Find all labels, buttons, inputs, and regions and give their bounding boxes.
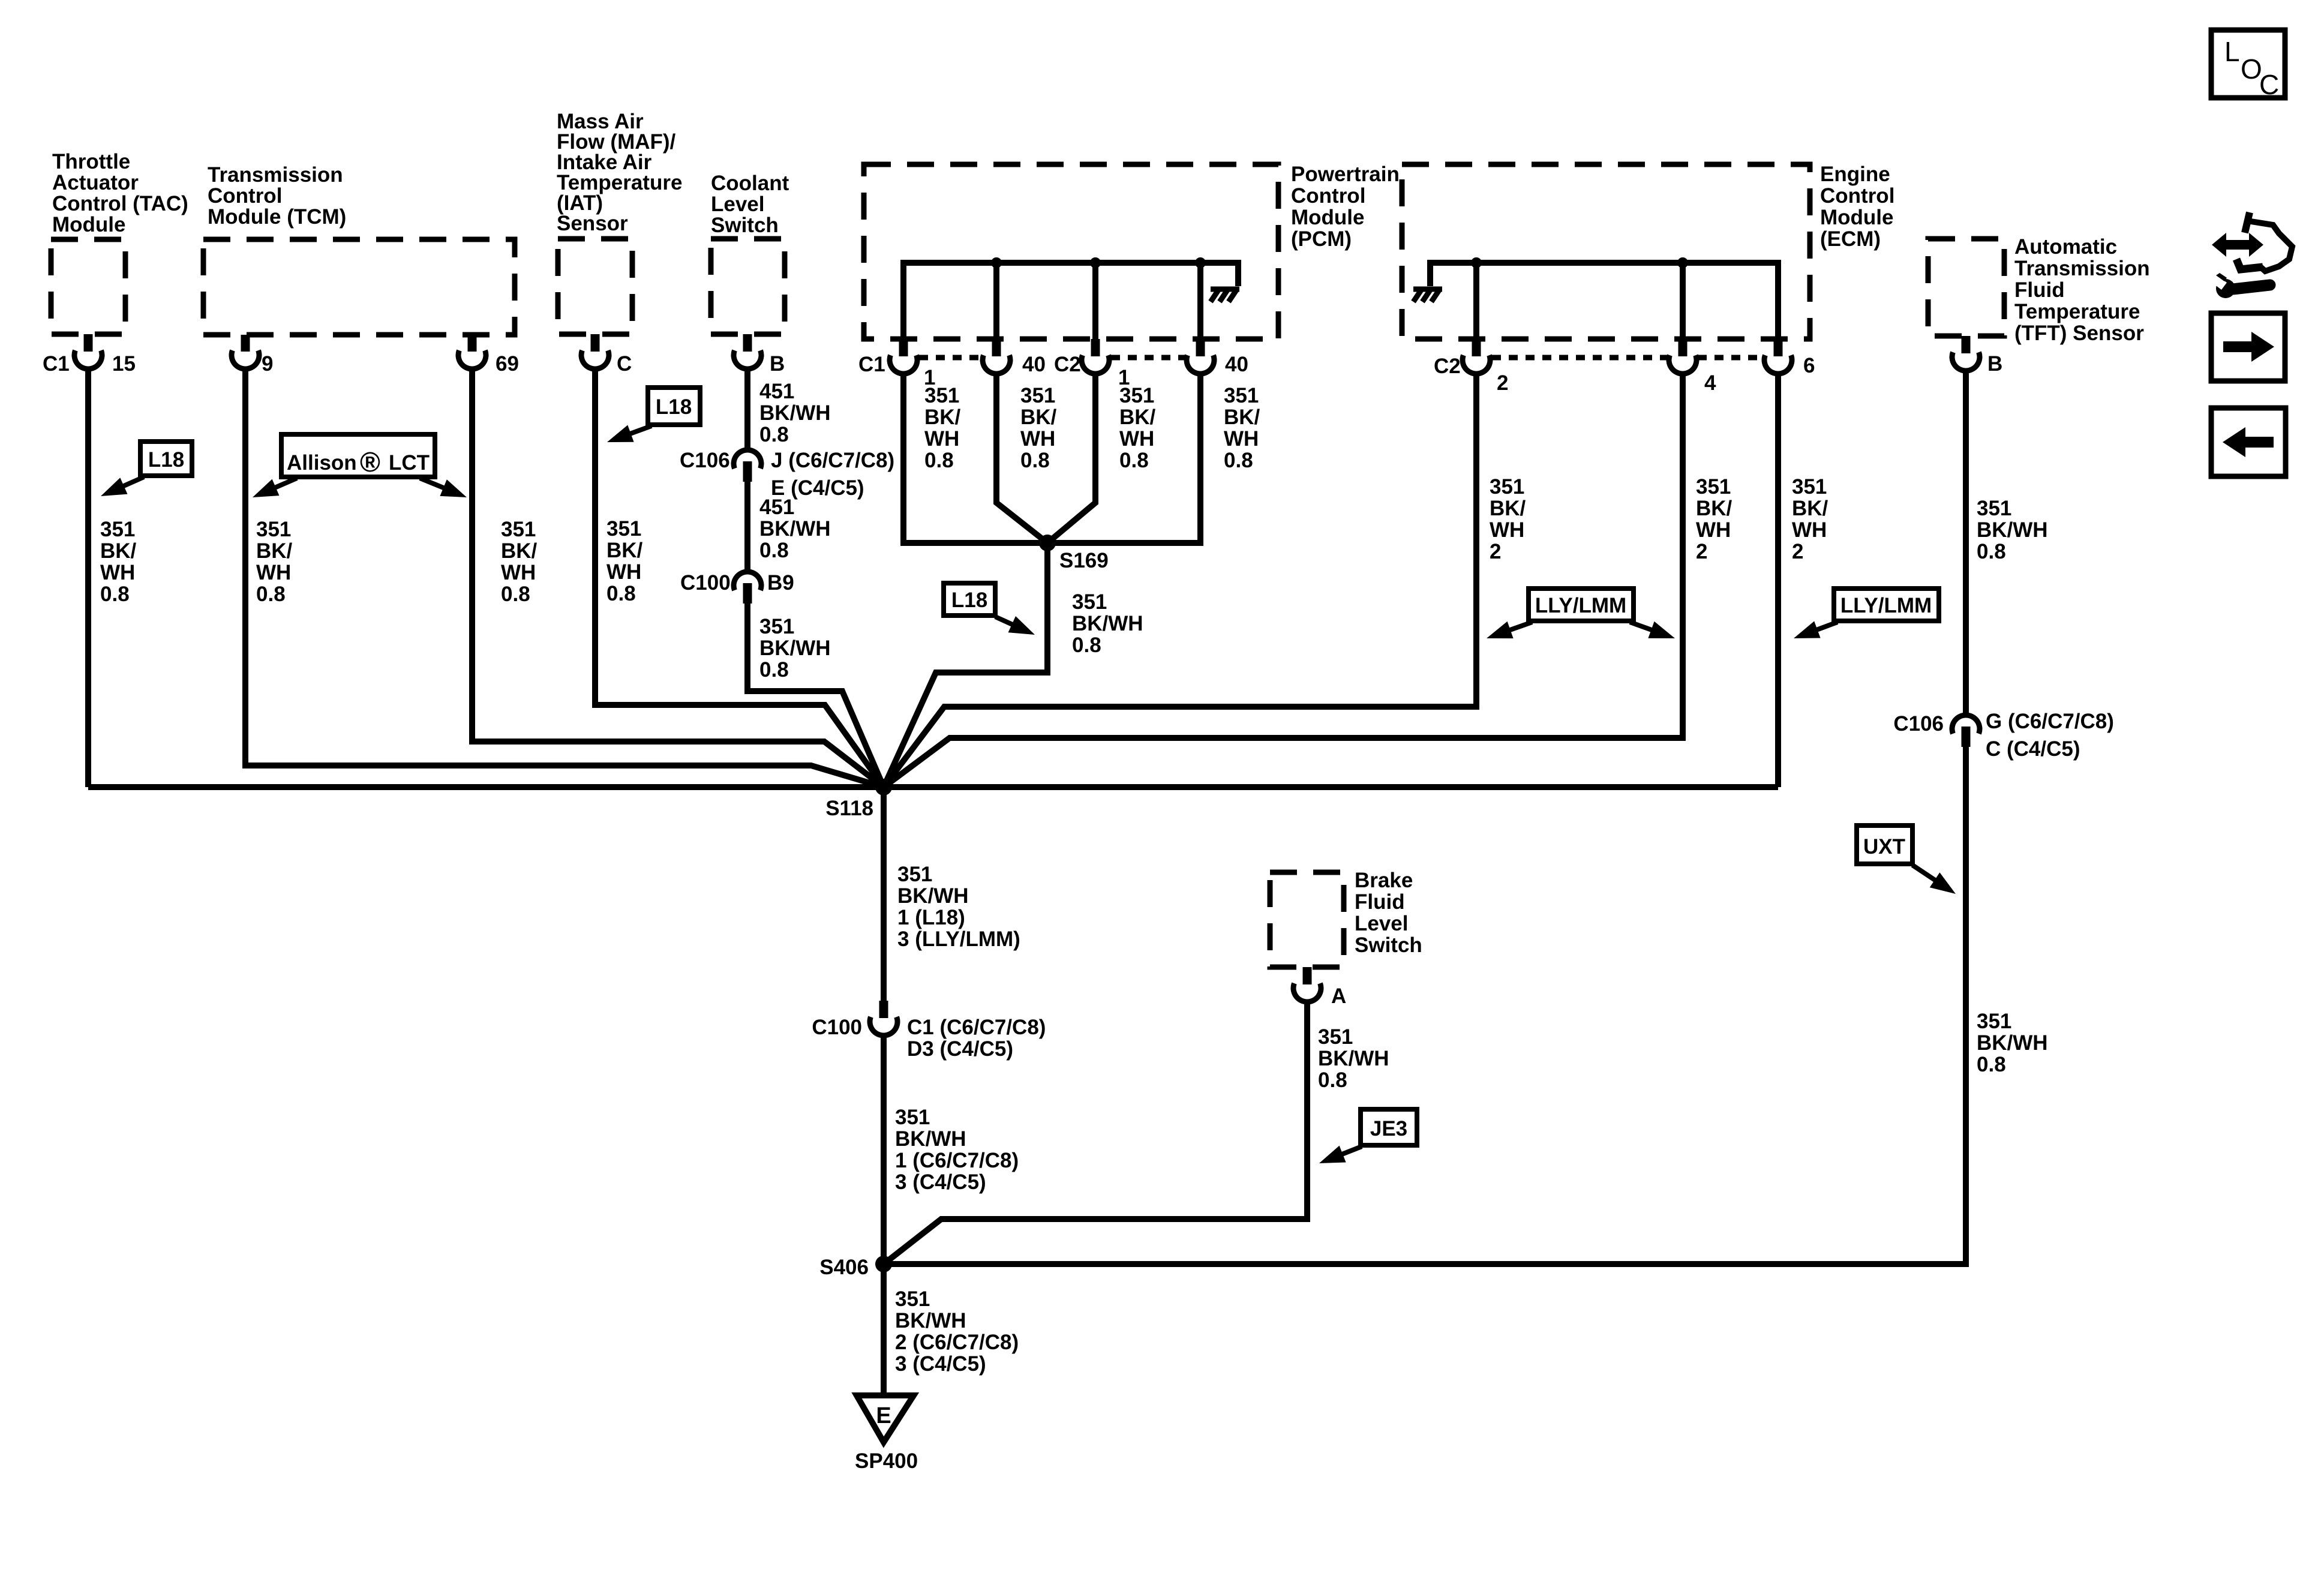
svg-text:Coolant: Coolant bbox=[711, 172, 789, 195]
wire ECM C2-2 to S118 bbox=[884, 374, 1476, 787]
wire label 351 BK/WH 0.8 (TCM 9) bbox=[256, 518, 293, 606]
svg-text:Brake: Brake bbox=[1355, 869, 1413, 892]
component box: Coolant Level Switch bbox=[711, 172, 789, 334]
svg-text:69: 69 bbox=[496, 352, 519, 376]
svg-text:3 (C4/C5): 3 (C4/C5) bbox=[895, 1170, 986, 1194]
callout UXT bbox=[1857, 825, 1956, 894]
splice S169 bbox=[1039, 535, 1109, 572]
svg-text:0.8: 0.8 bbox=[1224, 449, 1253, 472]
svg-text:0.8: 0.8 bbox=[1072, 634, 1101, 657]
pin B of coolant level switch bbox=[734, 334, 785, 376]
svg-text:Control (TAC): Control (TAC) bbox=[52, 192, 188, 215]
svg-text:BK/WH: BK/WH bbox=[759, 637, 831, 660]
svg-text:BK/: BK/ bbox=[1020, 406, 1057, 429]
svg-text:L18: L18 bbox=[148, 448, 184, 472]
svg-text:0.8: 0.8 bbox=[1318, 1068, 1347, 1092]
svg-text:C106: C106 bbox=[1893, 712, 1944, 736]
svg-text:Module: Module bbox=[1820, 206, 1893, 229]
ECM internal ground bus wire bbox=[1430, 263, 1778, 339]
svg-text:SP400: SP400 bbox=[855, 1449, 918, 1473]
component box: Brake Fluid Level Switch bbox=[1270, 869, 1422, 967]
component box: Transmission Control Module (TCM) bbox=[203, 163, 515, 335]
svg-text:WH: WH bbox=[100, 561, 135, 584]
svg-text:A: A bbox=[1331, 984, 1346, 1008]
svg-text:C1: C1 bbox=[858, 353, 885, 376]
svg-text:B9: B9 bbox=[767, 571, 794, 595]
svg-text:WH: WH bbox=[1224, 427, 1259, 451]
svg-text:WH: WH bbox=[501, 561, 536, 584]
svg-text:Powertrain: Powertrain bbox=[1291, 163, 1400, 186]
wire TCM pin 69 to S118 bbox=[472, 369, 884, 787]
svg-text:BK/: BK/ bbox=[606, 539, 643, 562]
svg-text:Module: Module bbox=[52, 213, 125, 236]
svg-text:BK/: BK/ bbox=[100, 539, 137, 563]
wire label 351 BK/WH 1 (C6/C7/C8) 3 (C4/C5) bbox=[895, 1106, 1019, 1194]
svg-text:351: 351 bbox=[1696, 475, 1731, 499]
wire label 351 BK/WH 0.8 (S169) bbox=[1072, 590, 1143, 657]
pin 69 of TCM bbox=[458, 335, 519, 376]
svg-text:C: C bbox=[2259, 69, 2279, 100]
pin 40 of PCM C1 bbox=[983, 339, 1046, 376]
callout L18 (S169) bbox=[944, 583, 1035, 635]
svg-text:S169: S169 bbox=[1059, 549, 1109, 572]
svg-text:BK/WH: BK/WH bbox=[895, 1127, 966, 1151]
chassis ground inside ECM bbox=[1413, 289, 1442, 302]
svg-text:LLY/LMM: LLY/LMM bbox=[1840, 594, 1932, 617]
svg-text:BK/: BK/ bbox=[256, 539, 293, 563]
svg-text:9: 9 bbox=[262, 352, 273, 376]
svg-text:0.8: 0.8 bbox=[924, 449, 954, 472]
pin 9 of TCM bbox=[232, 335, 273, 376]
svg-text:WH: WH bbox=[924, 427, 959, 451]
svg-text:BK/WH: BK/WH bbox=[1072, 612, 1143, 635]
svg-text:2: 2 bbox=[1490, 540, 1501, 563]
svg-text:351: 351 bbox=[1020, 384, 1055, 407]
svg-text:BK/: BK/ bbox=[501, 539, 538, 563]
svg-text:WH: WH bbox=[1490, 518, 1524, 542]
inline connector C106 (coolant) bbox=[680, 449, 894, 500]
svg-text:C (C4/C5): C (C4/C5) bbox=[1986, 737, 2080, 761]
wire coolant switch B to C106 bbox=[744, 369, 750, 450]
svg-text:B: B bbox=[1987, 352, 2002, 376]
svg-text:WH: WH bbox=[1119, 427, 1154, 451]
svg-text:351: 351 bbox=[501, 518, 536, 541]
wire PCM C2-1 to S169 bbox=[1047, 374, 1095, 543]
svg-text:BK/WH: BK/WH bbox=[759, 517, 831, 541]
callout L18 (MAF) bbox=[607, 388, 700, 442]
svg-text:2 (C6/C7/C8): 2 (C6/C7/C8) bbox=[895, 1331, 1019, 1354]
svg-text:351: 351 bbox=[1119, 384, 1154, 407]
svg-text:E: E bbox=[876, 1403, 891, 1428]
wire brake switch A to S406 bbox=[884, 1002, 1307, 1264]
dotted connector link PCM C1 bbox=[919, 355, 981, 361]
svg-text:Engine: Engine bbox=[1820, 163, 1890, 186]
svg-text:451: 451 bbox=[759, 496, 794, 519]
svg-text:Temperature: Temperature bbox=[2014, 300, 2140, 323]
svg-text:(TFT) Sensor: (TFT) Sensor bbox=[2014, 322, 2144, 345]
svg-text:Switch: Switch bbox=[711, 214, 779, 237]
callout JE3 bbox=[1319, 1109, 1417, 1163]
wire C106 to C100 bbox=[744, 482, 750, 572]
wire label 351 BK/WH 0.8 (TAC) bbox=[100, 518, 137, 606]
svg-text:Control: Control bbox=[1820, 184, 1894, 208]
svg-text:351: 351 bbox=[1792, 475, 1827, 499]
wire label 351 BK/WH 0.8 (PCM C1-1) bbox=[924, 384, 961, 472]
svg-text:L18: L18 bbox=[951, 589, 987, 612]
svg-text:(PCM): (PCM) bbox=[1291, 227, 1352, 251]
svg-text:0.8: 0.8 bbox=[256, 583, 286, 606]
wire label 351 BK/WH 1 (L18) 3 (LLY/LMM) bbox=[897, 863, 1020, 951]
wire label 351 BK/WH 0.8 (brake) bbox=[1318, 1025, 1389, 1092]
svg-text:0.8: 0.8 bbox=[759, 539, 789, 562]
wire TFT B to C106 G bbox=[1963, 371, 1969, 715]
svg-text:40: 40 bbox=[1022, 353, 1046, 376]
pin 4 of ECM bbox=[1669, 339, 1716, 395]
wire TCM pin 9 to S118 bbox=[245, 369, 884, 787]
svg-text:D3 (C4/C5): D3 (C4/C5) bbox=[907, 1037, 1013, 1061]
splice S406 bbox=[819, 1256, 892, 1279]
svg-text:BK/WH: BK/WH bbox=[1977, 1031, 2048, 1055]
wire C100 B9 to S118 bbox=[747, 604, 884, 787]
svg-text:BK/WH: BK/WH bbox=[897, 884, 969, 908]
wire ECM 6 to S118 bus bbox=[1775, 374, 1781, 787]
callout LLY/LMM (left) bbox=[1487, 589, 1675, 638]
wire label 351 BK/WH 0.8 (PCM 40b) bbox=[1224, 384, 1260, 472]
wire C106 G down to S406 bus bbox=[884, 747, 1966, 1264]
svg-text:15: 15 bbox=[112, 352, 136, 376]
svg-text:WH: WH bbox=[256, 561, 291, 584]
component box: Engine Control Module (ECM) bbox=[1402, 163, 1894, 339]
svg-text:WH: WH bbox=[1696, 518, 1731, 542]
wire PCM C1-1 to S169 bbox=[903, 374, 1047, 543]
svg-text:LCT: LCT bbox=[389, 451, 430, 475]
svg-text:®: ® bbox=[360, 446, 380, 478]
PCM internal ground bus wire bbox=[903, 263, 1238, 339]
svg-text:WH: WH bbox=[1792, 518, 1827, 542]
svg-text:C1 (C6/C7/C8): C1 (C6/C7/C8) bbox=[907, 1016, 1046, 1039]
pin C1 15 of TAC module bbox=[43, 334, 136, 376]
svg-text:Automatic: Automatic bbox=[2014, 235, 2117, 259]
svg-text:S118: S118 bbox=[825, 797, 873, 820]
svg-text:BK/WH: BK/WH bbox=[895, 1309, 966, 1332]
svg-text:2: 2 bbox=[1497, 371, 1508, 395]
legend icon vehicle with arrow and wrench bbox=[2211, 212, 2292, 298]
component box: Powertrain Control Module (PCM) bbox=[864, 163, 1400, 339]
svg-text:BK/WH: BK/WH bbox=[1318, 1047, 1389, 1070]
svg-text:1 (L18): 1 (L18) bbox=[897, 906, 965, 929]
svg-text:C2: C2 bbox=[1434, 355, 1461, 378]
svg-text:Throttle: Throttle bbox=[52, 150, 130, 173]
junction dot PCM bus 3 bbox=[1195, 257, 1206, 268]
wire label 351 BK/WH 0.8 (MAF) bbox=[606, 517, 643, 605]
pin 6 of ECM bbox=[1764, 339, 1815, 377]
svg-text:C: C bbox=[617, 352, 632, 376]
svg-text:BK/: BK/ bbox=[1224, 406, 1260, 429]
svg-text:351: 351 bbox=[1977, 497, 2011, 520]
svg-text:351: 351 bbox=[1318, 1025, 1353, 1049]
junction dot PCM bus 2 bbox=[1090, 257, 1101, 268]
svg-text:351: 351 bbox=[100, 518, 135, 541]
svg-text:2: 2 bbox=[1792, 540, 1803, 563]
wire label 351 BK/WH 0.8 (TCM 69) bbox=[501, 518, 538, 606]
svg-text:S406: S406 bbox=[819, 1256, 869, 1279]
callout L18 (left) bbox=[101, 442, 192, 496]
inline connector C100 B9 bbox=[680, 571, 794, 604]
svg-text:351: 351 bbox=[895, 1287, 930, 1311]
svg-text:351: 351 bbox=[1224, 384, 1259, 407]
wire label 351 BK/WH 0.8 (PCM 40a) bbox=[1020, 384, 1057, 472]
wire label 351 BK/WH 0.8 (PCM C2-1) bbox=[1119, 384, 1156, 472]
wire label 351 BK/WH 0.8 (coolant lower) bbox=[759, 615, 831, 682]
svg-text:C100: C100 bbox=[680, 571, 731, 595]
wire S169 to S118 bbox=[884, 543, 1047, 787]
svg-text:WH: WH bbox=[606, 560, 641, 584]
callout Allison LCT bbox=[253, 434, 467, 497]
wire PCM 40a to S169 bbox=[996, 374, 1047, 543]
svg-text:BK/: BK/ bbox=[1696, 497, 1733, 520]
svg-text:G (C6/C7/C8): G (C6/C7/C8) bbox=[1986, 710, 2114, 733]
svg-text:351: 351 bbox=[256, 518, 291, 541]
svg-text:Switch: Switch bbox=[1355, 933, 1422, 957]
wire label 351 BK/WH 0.8 (TFT lower) bbox=[1977, 1010, 2048, 1076]
svg-text:BK/: BK/ bbox=[924, 406, 961, 429]
svg-text:Fluid: Fluid bbox=[1355, 890, 1405, 914]
svg-text:351: 351 bbox=[1072, 590, 1107, 614]
svg-text:0.8: 0.8 bbox=[1119, 449, 1149, 472]
svg-text:BK/WH: BK/WH bbox=[759, 401, 831, 425]
legend box arrow left bbox=[2211, 408, 2286, 476]
svg-text:JE3: JE3 bbox=[1370, 1117, 1407, 1140]
svg-text:0.8: 0.8 bbox=[759, 423, 789, 446]
svg-text:0.8: 0.8 bbox=[501, 583, 530, 606]
wire S406 to ground SP400 bbox=[881, 1264, 887, 1397]
svg-text:B: B bbox=[770, 352, 785, 376]
svg-text:4: 4 bbox=[1704, 371, 1716, 395]
svg-text:Fluid: Fluid bbox=[2014, 278, 2065, 302]
svg-text:Level: Level bbox=[1355, 912, 1409, 935]
svg-text:C2: C2 bbox=[1054, 353, 1081, 376]
wire S118 horizontal bus bbox=[88, 784, 1778, 790]
svg-text:Actuator: Actuator bbox=[52, 171, 139, 194]
svg-text:351: 351 bbox=[1977, 1010, 2011, 1033]
splice S118 bbox=[825, 779, 892, 820]
svg-text:Level: Level bbox=[711, 193, 765, 216]
dotted connector link ECM C2 bbox=[1492, 355, 1763, 361]
svg-text:C106: C106 bbox=[680, 449, 730, 472]
wire ECM 4 to S118 bbox=[884, 374, 1683, 787]
svg-text:Control: Control bbox=[1291, 184, 1365, 208]
svg-text:351: 351 bbox=[897, 863, 932, 886]
junction dot ECM bus 2 bbox=[1677, 257, 1688, 268]
svg-text:BK/WH: BK/WH bbox=[1977, 518, 2048, 542]
svg-text:UXT: UXT bbox=[1863, 835, 1905, 858]
svg-text:LLY/LMM: LLY/LMM bbox=[1535, 594, 1626, 617]
svg-text:351: 351 bbox=[924, 384, 959, 407]
svg-text:Sensor: Sensor bbox=[557, 212, 628, 235]
wire S118 down to C100 C1/D3 bbox=[881, 787, 887, 1001]
inline connector C106 G (TFT) bbox=[1893, 710, 2114, 761]
svg-text:C1: C1 bbox=[43, 352, 70, 376]
svg-text:351: 351 bbox=[606, 517, 641, 541]
component box: Throttle Actuator Control (TAC) Module bbox=[51, 150, 188, 334]
wire MAF C to S118 bbox=[595, 369, 884, 787]
svg-text:BK/: BK/ bbox=[1792, 497, 1828, 520]
pin C2 1 of PCM bbox=[1054, 339, 1130, 389]
chassis ground inside PCM bbox=[1211, 289, 1239, 302]
legend box LOC bbox=[2211, 30, 2285, 100]
svg-text:351: 351 bbox=[1490, 475, 1524, 499]
svg-text:351: 351 bbox=[895, 1106, 930, 1129]
wire label 451 BK/WH 0.8 (coolant mid) bbox=[759, 496, 831, 562]
ground symbol SP400 with E bbox=[855, 1395, 918, 1473]
svg-text:Module: Module bbox=[1291, 206, 1364, 229]
dotted connector link PCM C2 bbox=[1111, 355, 1185, 361]
svg-text:L: L bbox=[2224, 36, 2240, 67]
svg-text:0.8: 0.8 bbox=[1977, 1053, 2006, 1076]
junction dot PCM bus 1 bbox=[991, 257, 1002, 268]
legend box arrow right bbox=[2211, 313, 2285, 381]
pin B of TFT sensor bbox=[1952, 336, 2002, 376]
svg-text:Transmission: Transmission bbox=[2014, 257, 2150, 280]
wire label 351 BK/WH 2 (ECM 4) bbox=[1696, 475, 1733, 563]
svg-text:Module (TCM): Module (TCM) bbox=[208, 205, 346, 229]
svg-text:J (C6/C7/C8): J (C6/C7/C8) bbox=[771, 449, 894, 472]
svg-text:3 (C4/C5): 3 (C4/C5) bbox=[895, 1352, 986, 1376]
wire TAC C1-15 to S118 bus bbox=[85, 369, 91, 787]
svg-text:1 (C6/C7/C8): 1 (C6/C7/C8) bbox=[895, 1149, 1019, 1172]
pin C1 1 of PCM bbox=[858, 339, 935, 389]
svg-text:0.8: 0.8 bbox=[1020, 449, 1050, 472]
svg-text:WH: WH bbox=[1020, 427, 1055, 451]
wire PCM 40b to S169 bbox=[1047, 374, 1200, 543]
svg-text:0.8: 0.8 bbox=[100, 583, 130, 606]
svg-text:BK/: BK/ bbox=[1490, 497, 1526, 520]
svg-text:Transmission: Transmission bbox=[208, 163, 343, 187]
svg-text:451: 451 bbox=[759, 380, 794, 403]
svg-text:0.8: 0.8 bbox=[1977, 540, 2006, 563]
svg-text:351: 351 bbox=[759, 615, 794, 638]
svg-text:BK/: BK/ bbox=[1119, 406, 1156, 429]
inline connector C100 C1/D3 bbox=[812, 1001, 1046, 1061]
svg-text:0.8: 0.8 bbox=[606, 582, 636, 605]
wire C100 C1/D3 to S406 bbox=[881, 1035, 887, 1264]
component box: Automatic Transmission Fluid Temperature (TFT) Sensor bbox=[1928, 235, 2150, 345]
svg-text:40: 40 bbox=[1225, 353, 1248, 376]
wire label 351 BK/WH 0.8 (TFT upper) bbox=[1977, 497, 2048, 563]
wire label 351 BK/WH 2 (ECM 6) bbox=[1792, 475, 1828, 563]
svg-text:3 (LLY/LMM): 3 (LLY/LMM) bbox=[897, 927, 1020, 951]
junction dot ECM bus 1 bbox=[1471, 257, 1482, 268]
wire label 351 BK/WH 2 (C6/C7/C8) 3 (C4/C5) bbox=[895, 1287, 1019, 1376]
svg-text:6: 6 bbox=[1803, 354, 1815, 377]
svg-text:L18: L18 bbox=[656, 395, 692, 419]
callout LLY/LMM (right) bbox=[1794, 589, 1939, 638]
svg-text:(ECM): (ECM) bbox=[1820, 227, 1881, 251]
pin A of brake fluid level switch bbox=[1293, 967, 1346, 1008]
pin C of MAF/IAT sensor bbox=[581, 334, 632, 376]
wire label 351 BK/WH 2 (ECM 2) bbox=[1490, 475, 1526, 563]
wire label 451 BK/WH 0.8 (coolant upper) bbox=[759, 380, 831, 446]
svg-text:2: 2 bbox=[1696, 540, 1707, 563]
svg-text:C100: C100 bbox=[812, 1016, 862, 1039]
component box: Mass Air Flow (MAF)/Intake Air Temperature (IAT) Sensor bbox=[557, 110, 682, 334]
pin C2 2 of ECM bbox=[1434, 339, 1508, 395]
pin 40 of PCM C2 bbox=[1187, 339, 1248, 376]
svg-text:Control: Control bbox=[208, 184, 282, 208]
svg-text:0.8: 0.8 bbox=[759, 658, 789, 682]
svg-text:Allison: Allison bbox=[287, 451, 357, 475]
